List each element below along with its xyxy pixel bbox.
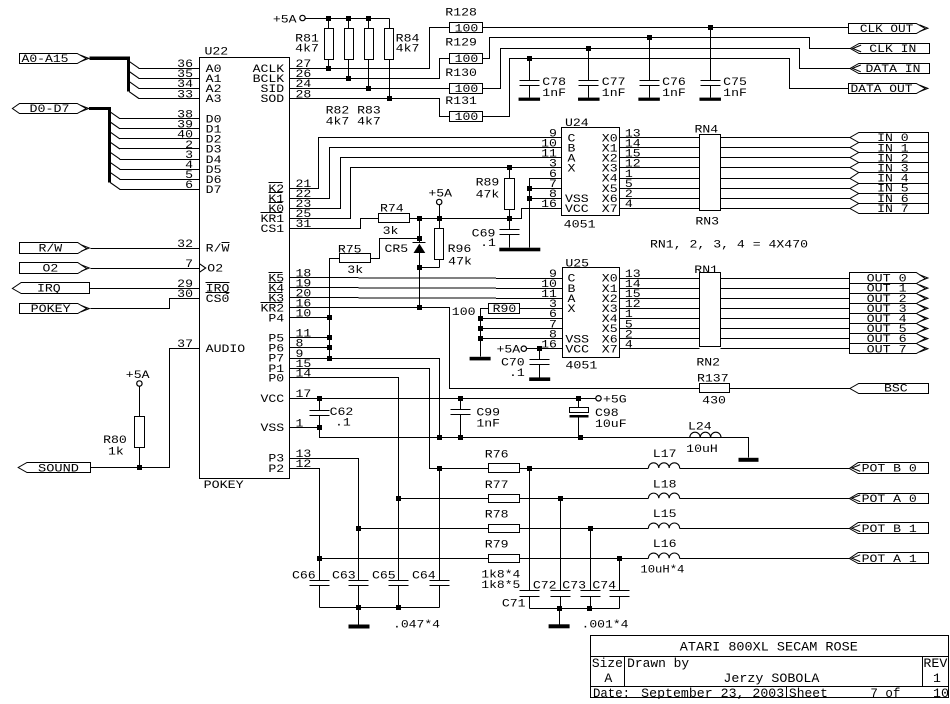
svg-text:RN4: RN4 (695, 125, 719, 137)
svg-text:1nF: 1nF (723, 88, 747, 100)
svg-text:SOD: SOD (261, 94, 285, 106)
svg-text:1: 1 (933, 672, 941, 686)
svg-text:POT B 0: POT B 0 (862, 464, 917, 476)
svg-text:CS1: CS1 (261, 224, 285, 236)
svg-text:C63: C63 (332, 571, 356, 583)
svg-text:R75: R75 (338, 245, 362, 257)
svg-text:R129: R129 (445, 38, 477, 50)
svg-text:4051: 4051 (565, 361, 597, 373)
svg-text:10uF: 10uF (595, 419, 627, 431)
svg-text:P0: P0 (268, 373, 284, 385)
svg-text:37: 37 (177, 339, 193, 351)
svg-text:R/W: R/W (206, 244, 230, 256)
svg-text:R79: R79 (485, 540, 509, 552)
svg-text:R80: R80 (103, 435, 127, 447)
svg-text:1nF: 1nF (602, 88, 626, 100)
svg-text:L15: L15 (653, 509, 677, 521)
svg-text:Drawn by: Drawn by (627, 657, 689, 671)
svg-text:R74: R74 (380, 204, 404, 216)
svg-text:16: 16 (541, 199, 557, 211)
svg-text:C72: C72 (533, 580, 557, 592)
svg-text:C64: C64 (412, 571, 436, 583)
svg-text:POKEY: POKEY (31, 304, 71, 316)
svg-text:430: 430 (702, 396, 726, 408)
svg-text:10: 10 (933, 687, 949, 699)
svg-text:VSS: VSS (261, 423, 285, 435)
svg-text:A: A (604, 672, 612, 686)
svg-text:DATA IN: DATA IN (866, 64, 921, 76)
svg-text:R128: R128 (445, 7, 477, 19)
svg-text:U22: U22 (205, 47, 229, 59)
svg-text:100: 100 (455, 112, 479, 124)
svg-text:POKEY: POKEY (204, 480, 244, 492)
svg-text:X7: X7 (602, 204, 618, 216)
svg-text:R96: R96 (448, 244, 472, 256)
svg-text:CLK IN: CLK IN (869, 44, 916, 56)
svg-text:P2: P2 (268, 464, 284, 476)
svg-text:POT B 1: POT B 1 (862, 524, 917, 536)
svg-text:.1: .1 (480, 238, 496, 250)
svg-text:L18: L18 (653, 479, 677, 491)
svg-text:CR5: CR5 (385, 244, 409, 256)
svg-text:BSC: BSC (884, 384, 908, 396)
svg-text:L16: L16 (653, 539, 677, 551)
svg-text:1k8*5: 1k8*5 (481, 580, 520, 592)
svg-text:A3: A3 (206, 94, 222, 106)
svg-text:REV: REV (923, 657, 947, 671)
svg-text:100: 100 (455, 54, 479, 66)
svg-text:C73: C73 (562, 580, 586, 592)
svg-text:D7: D7 (206, 185, 222, 197)
svg-text:VCC: VCC (565, 204, 589, 216)
svg-text:4k7: 4k7 (396, 44, 420, 56)
svg-text:POT A 0: POT A 0 (862, 494, 917, 506)
svg-text:CLK OUT: CLK OUT (860, 24, 914, 36)
svg-text:C65: C65 (372, 571, 396, 583)
svg-text:POT A 1: POT A 1 (862, 554, 917, 566)
svg-text:O2: O2 (43, 264, 59, 276)
svg-text:33: 33 (177, 89, 193, 101)
svg-text:R/W: R/W (39, 244, 63, 256)
svg-text:X7: X7 (602, 344, 618, 356)
svg-text:L17: L17 (653, 449, 677, 461)
svg-text:+5A: +5A (126, 370, 150, 382)
svg-text:10uH*4: 10uH*4 (640, 565, 684, 577)
svg-text:+5A: +5A (428, 189, 452, 201)
svg-text:U24: U24 (565, 118, 589, 130)
svg-text:R137: R137 (697, 373, 729, 385)
svg-text:X: X (568, 164, 576, 176)
svg-text:RN2: RN2 (696, 358, 720, 370)
svg-text:A0-A15: A0-A15 (22, 54, 69, 66)
svg-text:3k: 3k (383, 226, 399, 238)
svg-text:September 23, 2003: September 23, 2003 (641, 687, 784, 699)
svg-text:DATA OUT: DATA OUT (851, 84, 913, 96)
svg-text:100: 100 (452, 307, 476, 319)
svg-text:RN1: RN1 (694, 265, 718, 277)
svg-text:Jerzy SOBOLA: Jerzy SOBOLA (723, 672, 819, 686)
svg-text:100: 100 (455, 24, 479, 36)
svg-text:VCC: VCC (261, 394, 285, 406)
svg-text:P4: P4 (268, 314, 284, 326)
svg-text:VCC: VCC (565, 344, 589, 356)
svg-text:6: 6 (185, 180, 193, 192)
svg-text:SOUND: SOUND (38, 463, 79, 475)
svg-text:30: 30 (177, 289, 193, 301)
svg-text:.001*4: .001*4 (582, 619, 629, 631)
svg-text:R76: R76 (485, 450, 509, 462)
svg-text:.1: .1 (335, 418, 351, 430)
svg-text:Sheet: Sheet (789, 687, 828, 699)
svg-text:OUT 7: OUT 7 (867, 344, 907, 356)
svg-text:R78: R78 (485, 510, 509, 522)
svg-text:7 of: 7 of (870, 687, 900, 699)
svg-text:C66: C66 (292, 571, 316, 583)
svg-text:+5A: +5A (273, 15, 297, 27)
svg-text:16: 16 (541, 340, 557, 352)
svg-text:CS0: CS0 (206, 294, 230, 306)
svg-text:R90: R90 (493, 304, 517, 316)
svg-text:D0-D7: D0-D7 (30, 104, 70, 116)
svg-text:4k7: 4k7 (295, 44, 319, 56)
svg-text:C71: C71 (502, 599, 526, 611)
svg-text:1: 1 (296, 418, 304, 430)
svg-text:.047*4: .047*4 (393, 619, 440, 631)
svg-text:ATARI 800XL SECAM ROSE: ATARI 800XL SECAM ROSE (680, 641, 858, 655)
svg-text:10uH: 10uH (686, 444, 718, 456)
svg-text:31: 31 (296, 219, 312, 231)
svg-text:47k: 47k (476, 190, 500, 202)
svg-text:R77: R77 (485, 480, 509, 492)
svg-text:1nF: 1nF (662, 88, 686, 100)
svg-text:IN 7: IN 7 (877, 204, 909, 216)
svg-text:1k: 1k (108, 446, 124, 458)
svg-text:100: 100 (455, 84, 479, 96)
svg-text:Size: Size (592, 657, 623, 671)
svg-text:.1: .1 (509, 368, 525, 380)
svg-text:+5A: +5A (497, 345, 521, 357)
svg-text:AUDIO: AUDIO (206, 344, 246, 356)
svg-text:RN1, 2, 3, 4 = 4X470: RN1, 2, 3, 4 = 4X470 (650, 240, 808, 252)
svg-text:R89: R89 (476, 177, 500, 189)
svg-text:4: 4 (625, 340, 633, 352)
svg-text:IRQ: IRQ (37, 284, 61, 296)
svg-text:3k: 3k (347, 265, 363, 277)
svg-text:17: 17 (296, 389, 312, 401)
svg-text:1nF: 1nF (542, 88, 566, 100)
svg-text:Date:: Date: (593, 687, 630, 699)
svg-text:4k7 4k7: 4k7 4k7 (326, 117, 381, 129)
svg-text:R130: R130 (445, 68, 477, 80)
svg-text:U25: U25 (565, 259, 589, 271)
svg-text:1nF: 1nF (476, 419, 500, 431)
svg-text:12: 12 (296, 459, 312, 471)
svg-text:10: 10 (296, 309, 312, 321)
svg-text:47k: 47k (448, 257, 472, 269)
svg-text:4: 4 (625, 199, 633, 211)
svg-text:4051: 4051 (564, 220, 596, 232)
svg-text:28: 28 (296, 89, 312, 101)
svg-text:X: X (568, 304, 576, 316)
svg-text:R131: R131 (445, 96, 477, 108)
svg-text:L24: L24 (688, 422, 712, 434)
svg-text:RN3: RN3 (695, 217, 719, 229)
svg-text:+5G: +5G (603, 394, 627, 406)
svg-text:O2: O2 (207, 264, 223, 276)
svg-text:14: 14 (296, 369, 312, 381)
svg-text:C74: C74 (592, 580, 616, 592)
